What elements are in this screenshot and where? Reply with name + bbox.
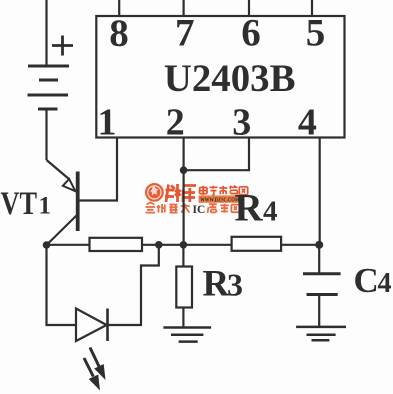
svg-text:8: 8 (109, 12, 129, 55)
pin 5 top stub (311, 0, 313, 16)
wire R3 bottom lead (182, 308, 184, 328)
svg-text:U2403B: U2403B (164, 57, 296, 100)
battery polarity plus sign (52, 36, 73, 56)
svg-text:7: 7 (175, 12, 195, 55)
watermark weiku logo disc (145, 183, 164, 202)
wire pin 4 down (319, 138, 321, 245)
node junction A (43, 241, 51, 249)
watermark banner www.dzsc.com (199, 195, 242, 203)
transistor VT1 emitter diagonal (47, 160, 70, 179)
watermark small text dianzishichangwang (200, 186, 248, 196)
transistor VT1 collector diagonal (47, 215, 78, 246)
wire C4 bottom lead (318, 295, 320, 328)
wire rail left (47, 244, 90, 246)
node junction pin2/pin3 (180, 166, 188, 174)
transistor VT1 emitter arrowhead (PNP) (63, 179, 76, 191)
svg-text:5: 5 (306, 12, 326, 55)
node junction C (180, 241, 188, 249)
svg-text:1: 1 (39, 193, 52, 220)
LED light arrow 2 (84, 358, 100, 391)
LED light arrow 1 (90, 348, 106, 381)
wire pin 2 down (183, 138, 185, 245)
svg-text:IC: IC (193, 204, 206, 216)
svg-text:4: 4 (298, 102, 317, 144)
wire C4 top lead (318, 245, 320, 274)
wire pin 3 down and left (184, 138, 249, 171)
ground for C4 (296, 327, 346, 340)
wire left branch down to LED (47, 245, 77, 325)
svg-text:VT: VT (1, 186, 38, 222)
IC U2403B box (96, 16, 344, 138)
transistor VT1 base bar (76, 172, 80, 232)
wire battery top lead (45, 0, 47, 66)
battery GB plates (28, 66, 70, 109)
pin 7 top stub (183, 0, 185, 16)
svg-text:C: C (354, 261, 379, 300)
svg-text:6: 6 (241, 12, 261, 55)
wire battery to transistor emitter (45, 109, 47, 160)
wire LED cathode jog up to rail (108, 245, 159, 325)
wire rail middle (142, 244, 232, 246)
resistor R4 body (232, 237, 282, 251)
pin 6 top stub (248, 0, 250, 16)
wire R3 top lead (182, 245, 184, 267)
node junction B (155, 241, 163, 249)
svg-text:3: 3 (232, 102, 251, 144)
resistor R3 body (176, 267, 192, 308)
svg-text:3: 3 (227, 267, 243, 303)
LED triangle (76, 309, 107, 342)
svg-text:2: 2 (166, 102, 185, 144)
svg-text:R: R (235, 187, 264, 230)
capacitor C4 plates (303, 274, 341, 295)
svg-text:4: 4 (378, 268, 392, 299)
watermark bottom row quanqiuzuidaICcaigouwang (146, 203, 190, 214)
ground for R3 (163, 328, 211, 342)
svg-text:1: 1 (98, 102, 117, 144)
watermark weiku big chars (165, 184, 196, 202)
svg-text:WWW.DZSC.COM: WWW.DZSC.COM (200, 197, 239, 204)
node junction D (315, 241, 323, 249)
LED cathode bar (106, 309, 109, 342)
pin 8 top stub (118, 0, 120, 16)
svg-text:4: 4 (263, 196, 278, 228)
wire base to pin 1 (79, 138, 117, 201)
resistor R (left, unlabeled) (90, 238, 143, 251)
wire rail right (281, 244, 319, 246)
